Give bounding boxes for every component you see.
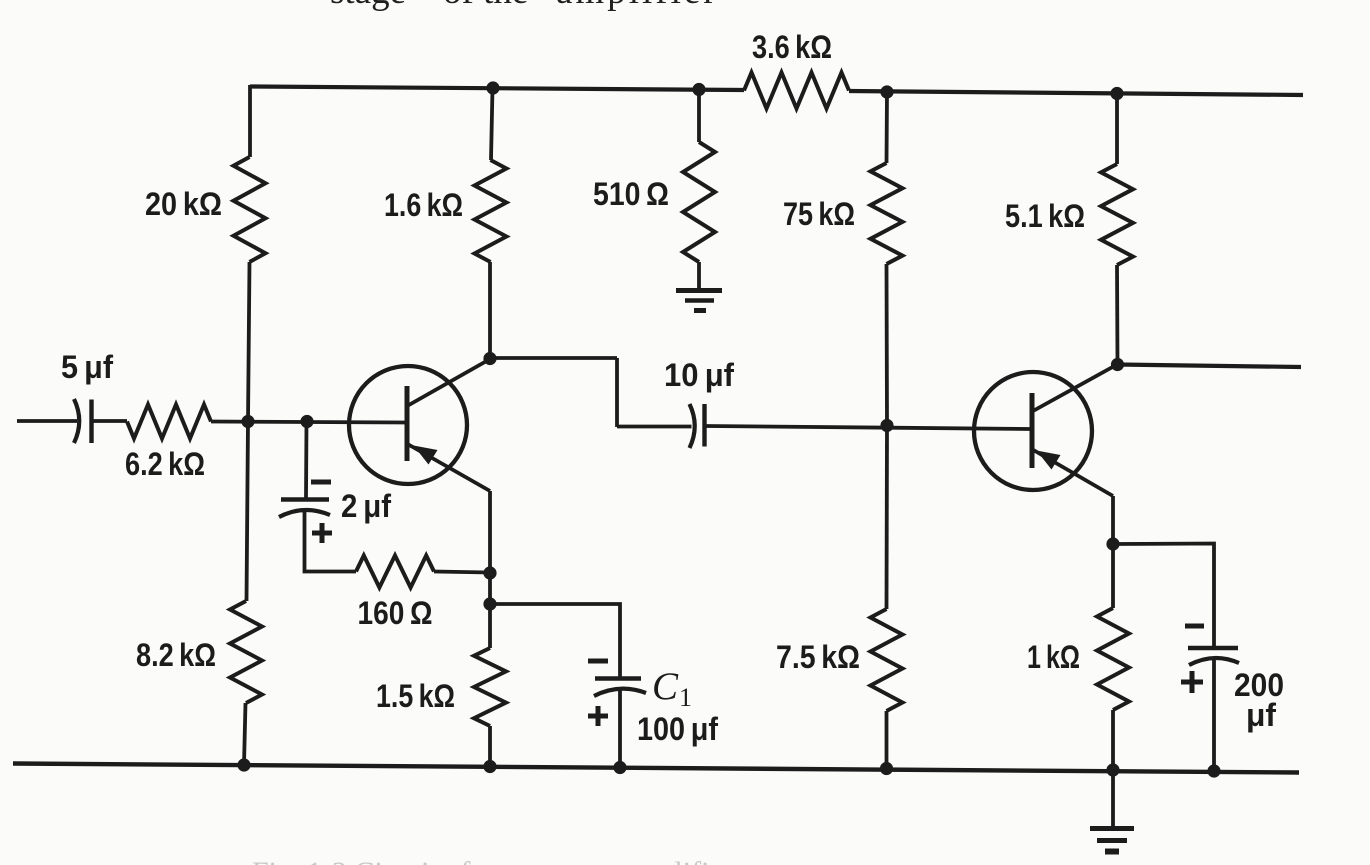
svg-text:1 kΩ: 1 kΩ xyxy=(1027,639,1080,675)
ground under 510 bar3 xyxy=(694,308,706,313)
wire 2uf branch down xyxy=(304,422,308,498)
cropped page title text (top edge) xyxy=(330,0,719,12)
capacitor 10uf curved plate xyxy=(690,404,695,448)
svg-text:10 μf: 10 μf xyxy=(664,357,734,393)
svg-text:75 kΩ: 75 kΩ xyxy=(783,196,855,232)
label 200 xyxy=(1234,667,1284,703)
wire base node down to 7.5k xyxy=(885,426,889,610)
svg-text:μf: μf xyxy=(1246,697,1276,733)
wire emitter2 to 200uf xyxy=(1113,544,1214,647)
label 20 kΩ xyxy=(145,186,222,222)
wire output from collector2 xyxy=(1118,365,1302,368)
resistor R 3.6k body xyxy=(744,73,849,109)
svg-text:7.5 kΩ: 7.5 kΩ xyxy=(776,639,860,675)
wire 7.5k to bottom rail xyxy=(885,711,889,769)
resistor R 5.1k body xyxy=(1101,164,1133,265)
svg-text:1: 1 xyxy=(679,683,692,712)
label 2 μf xyxy=(341,488,391,524)
resistor R 1.6k body xyxy=(475,160,507,262)
wire emitter2 to 1k xyxy=(1111,544,1115,608)
resistor R 8.2k body xyxy=(230,601,262,703)
capacitor 2uf straight plate xyxy=(281,497,329,501)
svg-text:amplifier: amplifier xyxy=(556,0,719,12)
svg-text:2 μf: 2 μf xyxy=(341,488,391,524)
resistor R 1k body xyxy=(1097,608,1129,710)
resistor R 20k body xyxy=(234,157,266,262)
wire 20k to input node xyxy=(248,262,250,422)
svg-text:1.6 kΩ: 1.6 kΩ xyxy=(384,187,463,223)
capacitor 2uf curved plate xyxy=(279,510,330,517)
capacitor 2uf plus sign xyxy=(312,523,332,543)
wire bottom ground rail xyxy=(13,764,1299,773)
capacitor C1 curved plate xyxy=(594,689,646,696)
wire Q1 emitter down xyxy=(488,491,492,573)
node top rail / 510 junction xyxy=(692,83,705,96)
node 2uf branch junction xyxy=(300,415,313,428)
node bottom rail / 200uf xyxy=(1207,764,1220,777)
transistor Q2 emitter lead xyxy=(1033,450,1114,497)
svg-text:5 μf: 5 μf xyxy=(61,349,113,385)
svg-text:6.2 kΩ: 6.2 kΩ xyxy=(125,446,205,482)
wire step to 10uf xyxy=(617,425,692,429)
wire input node down to 8.2k xyxy=(247,422,249,602)
svg-text:5.1 kΩ: 5.1 kΩ xyxy=(1005,198,1085,234)
wire C1 to bottom rail xyxy=(618,688,622,768)
node C1 branch junction xyxy=(483,597,496,610)
wire 5.1k to collector2 node xyxy=(1115,265,1119,364)
wire Q2 emitter down xyxy=(1111,496,1115,544)
wire 200uf to bottom rail xyxy=(1212,657,1216,771)
svg-text:1.5 kΩ: 1.5 kΩ xyxy=(376,678,455,714)
svg-text:20 kΩ: 20 kΩ xyxy=(145,186,222,222)
wire step down xyxy=(615,358,619,427)
label 1 kΩ xyxy=(1027,639,1080,675)
label 1.5 kΩ xyxy=(376,678,455,714)
svg-text:C: C xyxy=(652,665,679,708)
node bottom rail / 1k xyxy=(1106,763,1119,776)
resistor R 160 body xyxy=(356,556,434,588)
wire 2uf to 160 corner xyxy=(305,509,357,572)
svg-text:Fig. 1-2 Circuit of a: Fig. 1-2 Circuit of a two-stage amplifie… xyxy=(252,856,733,865)
wire top rail to 1.6k xyxy=(491,88,493,160)
capacitor 200uf curved plate xyxy=(1189,658,1239,665)
label 7.5 kΩ xyxy=(776,639,860,675)
transistor Q2 emitter arrow xyxy=(1037,451,1061,470)
wire 5uf to 6.2k xyxy=(94,419,128,423)
wire top rail to 5.1k xyxy=(1115,94,1119,165)
capacitor C1 minus sign xyxy=(588,659,608,664)
label 75 kΩ xyxy=(783,196,855,232)
node emitter2 junction xyxy=(1106,537,1119,550)
wire 1.6k to collector node xyxy=(488,262,492,359)
ground bottom bar3 xyxy=(1105,849,1119,855)
wire top rail corner down to 20k xyxy=(248,85,252,157)
wire 75k to base node xyxy=(885,264,889,426)
label 5 μf xyxy=(61,349,113,385)
svg-text:8.2 kΩ: 8.2 kΩ xyxy=(136,637,216,673)
wire top supply rail right segment xyxy=(849,91,1303,95)
wire input lead xyxy=(17,419,77,423)
wire 160 to emitter node xyxy=(434,572,490,573)
capacitor C1 plus sign xyxy=(588,706,608,726)
node top rail / 5.1k junction xyxy=(1110,87,1123,100)
label 1.6 kΩ xyxy=(384,187,463,223)
node bottom rail / 7.5k xyxy=(880,762,893,775)
wire 1k to bottom rail xyxy=(1111,710,1115,770)
svg-text:3.6 kΩ: 3.6 kΩ xyxy=(752,29,832,65)
node top rail / 75k junction xyxy=(880,85,893,98)
capacitor 200uf straight plate xyxy=(1188,646,1238,650)
resistor R 7.5k body xyxy=(871,609,903,711)
wire 6.2k to transistor base xyxy=(211,422,406,423)
label C1 xyxy=(652,665,692,712)
resistor R 1.5k body xyxy=(474,648,506,726)
capacitor 2uf minus sign xyxy=(311,480,331,485)
node bottom rail / C1 xyxy=(613,761,626,774)
svg-text:of the: of the xyxy=(443,0,528,12)
label 8.2 kΩ xyxy=(136,637,216,673)
wire top rail to 510 xyxy=(697,90,701,143)
resistor R 6.2k body xyxy=(127,405,211,439)
transistor Q1 circle xyxy=(349,366,467,484)
ground under 510 bar2 xyxy=(685,298,714,303)
node top rail / 1.6k junction xyxy=(486,81,499,94)
wire 10uf to Q2 base xyxy=(707,426,1031,429)
svg-text:160 Ω: 160 Ω xyxy=(358,595,433,631)
wire top supply rail left segment xyxy=(250,87,744,91)
resistor R 75k body xyxy=(871,163,903,264)
label 160 Ω xyxy=(358,595,433,631)
transistor Q2 circle xyxy=(974,372,1092,490)
label 10 μf xyxy=(664,357,734,393)
cropped figure caption text (bottom edge) xyxy=(252,856,733,865)
ground under 510 bar1 xyxy=(676,288,722,293)
node input junction A xyxy=(241,415,254,428)
ground bottom bar2 xyxy=(1097,838,1127,843)
wire 8.2k to bottom rail xyxy=(244,703,246,765)
label 510 Ω xyxy=(593,176,669,212)
capacitor C1 straight plate xyxy=(595,676,641,680)
ground bottom bar1 xyxy=(1090,826,1134,831)
capacitor 200uf minus sign xyxy=(1185,624,1204,629)
transistor Q1 emitter arrow xyxy=(414,446,438,465)
wire bottom rail to ground stub xyxy=(1111,770,1115,827)
label 100 μf xyxy=(637,711,718,747)
wire C1 node to 1.5k xyxy=(488,604,492,648)
label μf (200uf) xyxy=(1246,697,1276,733)
wire emitter node to C1 node xyxy=(488,573,492,604)
label 3.6 kΩ xyxy=(752,29,832,65)
label 6.2 kΩ xyxy=(125,446,205,482)
node Q1 collector junction xyxy=(483,352,496,365)
transistor Q1 collector lead xyxy=(408,359,491,406)
wire 510 to ground xyxy=(697,262,701,289)
node emitter1 / 160 junction xyxy=(483,566,496,579)
node bottom rail / 1.5k xyxy=(483,760,496,773)
node base2 / divider junction xyxy=(880,419,893,432)
svg-text:100 μf: 100 μf xyxy=(637,711,718,747)
wire top rail to 75k xyxy=(885,92,889,163)
resistor R 510 body xyxy=(683,142,715,262)
transistor Q2 base bar xyxy=(1030,393,1035,468)
svg-text:510 Ω: 510 Ω xyxy=(593,176,669,212)
capacitor 5uf curved plate xyxy=(74,399,79,443)
transistor Q1 emitter lead xyxy=(408,444,491,491)
capacitor 10uf straight plate xyxy=(702,404,706,447)
capacitor 5uf straight plate xyxy=(89,400,93,444)
wire 1.5k to bottom rail xyxy=(488,726,492,766)
transistor Q1 base bar xyxy=(405,386,410,461)
svg-text:stage: stage xyxy=(330,0,406,12)
label 5.1 kΩ xyxy=(1005,198,1085,234)
transistor Q2 collector lead xyxy=(1033,364,1118,411)
node bottom rail / 8.2k xyxy=(237,758,250,771)
wire collector node to step xyxy=(490,356,617,360)
wire C1 node to C1 cap xyxy=(490,604,620,677)
capacitor 200uf plus sign xyxy=(1181,671,1203,693)
node Q2 collector junction xyxy=(1111,358,1124,371)
